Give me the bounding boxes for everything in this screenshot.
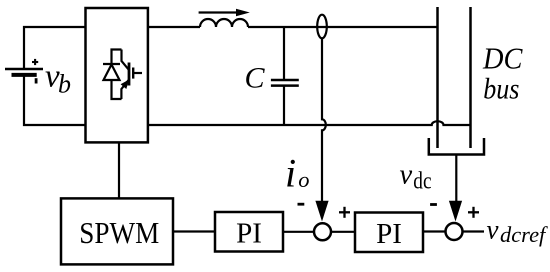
arrow vdc into summer — [449, 201, 462, 222]
svg-text:i: i — [285, 150, 296, 195]
svg-text:PI: PI — [236, 218, 262, 250]
PI block 1 — [215, 212, 283, 252]
svg-text:dcref: dcref — [500, 222, 548, 247]
wire io sense (hop over bottom wire) — [322, 38, 326, 201]
summing junction 1 — [314, 223, 331, 240]
svg-text:C: C — [245, 62, 266, 95]
plus sign summer2 — [468, 207, 479, 218]
wire summer1 to PI1 — [283, 231, 314, 233]
converter box U1 — [86, 8, 148, 142]
label DC bus — [482, 41, 523, 106]
wire battery top to converter — [24, 27, 86, 68]
diode D1 — [103, 50, 122, 100]
wire converter to DC bus (bottom, hop over left bar) — [148, 121, 471, 125]
wire vdc sense — [455, 155, 457, 202]
minus sign summer2 — [430, 203, 437, 206]
vdc probe bracket — [429, 138, 484, 155]
plus sign summer1 — [339, 207, 350, 218]
svg-text:dc: dc — [413, 168, 431, 195]
transistor Q1 (IGBT) — [121, 50, 142, 100]
DC bus bar left — [436, 7, 439, 148]
wire PI2 to summer1 — [331, 231, 355, 233]
current direction arrow — [199, 9, 250, 17]
wire summer2 to PI2 — [423, 230, 446, 232]
svg-text:DC: DC — [482, 41, 523, 76]
summing junction 2 — [446, 223, 463, 240]
wire battery bottom to converter — [24, 75, 86, 125]
label vdc — [400, 159, 432, 194]
battery VB — [5, 59, 43, 84]
svg-text:PI: PI — [376, 218, 402, 250]
wire vdcref to summer2 — [463, 230, 485, 232]
current sensor CT — [317, 15, 327, 39]
wire converter to SPWM — [118, 142, 120, 198]
svg-text:b: b — [58, 69, 71, 98]
wire PI1 to SPWM — [173, 230, 215, 232]
minus sign summer1 — [298, 203, 305, 206]
label vb — [45, 59, 71, 99]
label vdcref — [487, 214, 549, 247]
label C — [245, 62, 266, 95]
svg-text:SPWM: SPWM — [79, 215, 159, 250]
capacitor C — [271, 27, 299, 125]
svg-text:bus: bus — [483, 74, 519, 106]
arrow io into summer — [315, 201, 328, 222]
wire converter to DC bus (top) — [148, 26, 438, 28]
SPWM block — [61, 198, 173, 264]
svg-text:o: o — [298, 167, 309, 192]
svg-text:v: v — [487, 214, 499, 244]
label io — [285, 150, 310, 195]
PI block 2 — [355, 213, 423, 253]
DC bus bar right — [469, 7, 472, 148]
inductor L1 — [200, 19, 248, 27]
svg-text:v: v — [400, 159, 413, 190]
